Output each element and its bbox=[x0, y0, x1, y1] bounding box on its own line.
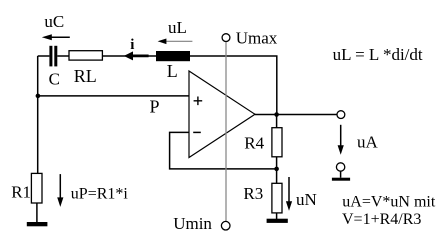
op-amp minus input marker bbox=[193, 131, 201, 133]
wire top-left horizontal to capacitor bbox=[38, 55, 50, 57]
svg-text:uA=V*uN mit: uA=V*uN mit bbox=[342, 193, 436, 210]
svg-text:RL: RL bbox=[74, 66, 97, 86]
resistor R4 bbox=[272, 128, 282, 157]
resistor R1 bbox=[31, 173, 42, 203]
wire node P to op-amp plus input bbox=[38, 95, 189, 97]
wire L to top-right corner and down to output node bbox=[190, 56, 277, 115]
capacitor C plates bbox=[49, 46, 57, 67]
node R4/R3 junction dot bbox=[274, 167, 279, 172]
svg-text:V=1+R4/R3: V=1+R4/R3 bbox=[342, 211, 421, 228]
wire R3 to ground bbox=[276, 213, 278, 219]
wire capacitor to resistor RL bbox=[57, 55, 69, 57]
svg-text:Umax: Umax bbox=[236, 28, 278, 47]
svg-text:L: L bbox=[167, 61, 178, 81]
svg-text:uA: uA bbox=[357, 133, 379, 152]
wire op-amp output to uA terminal bbox=[255, 114, 337, 116]
ground under R1 bbox=[27, 222, 48, 226]
terminal Umax bbox=[222, 34, 230, 42]
wire feedback loop from minus input to R4/R3 node bbox=[170, 132, 277, 169]
arrow uC bbox=[42, 34, 70, 40]
ground under uA terminal bbox=[332, 178, 350, 181]
node P junction dot bbox=[36, 94, 41, 99]
supply wire Umax to Umin through op-amp bbox=[225, 42, 227, 222]
svg-text:R3: R3 bbox=[243, 184, 263, 203]
svg-text:P: P bbox=[150, 97, 160, 117]
op-amp bbox=[189, 71, 255, 158]
terminal uA output bbox=[337, 111, 345, 119]
arrow uN bbox=[286, 177, 292, 211]
svg-text:Umin: Umin bbox=[173, 214, 212, 233]
svg-text:R1: R1 bbox=[11, 182, 31, 201]
svg-text:C: C bbox=[49, 70, 60, 89]
inductor L bbox=[156, 51, 190, 61]
svg-text:uL: uL bbox=[168, 18, 187, 37]
ground under R3 bbox=[267, 219, 288, 223]
resistor RL bbox=[69, 51, 102, 60]
arrow uL bbox=[158, 39, 193, 45]
wire output node to R4 bbox=[276, 115, 278, 129]
terminal Umin bbox=[221, 221, 230, 230]
wire left vertical from capacitor down to R1 bbox=[37, 56, 39, 173]
arrow uP bbox=[57, 174, 63, 207]
wire R4 to R3 node bbox=[276, 157, 278, 184]
svg-text:uN: uN bbox=[296, 190, 317, 209]
node output junction dot bbox=[274, 112, 279, 117]
op-amp plus input marker bbox=[194, 97, 203, 106]
wire RL to inductor L bbox=[102, 55, 156, 57]
svg-text:i: i bbox=[130, 37, 134, 53]
arrow uA bbox=[338, 125, 344, 155]
svg-text:R4: R4 bbox=[244, 134, 264, 153]
svg-text:uC: uC bbox=[44, 12, 64, 31]
resistor R3 bbox=[272, 183, 282, 213]
arrow i (current) bbox=[124, 51, 149, 60]
wire uA terminal stub bbox=[340, 171, 342, 178]
terminal uA lower bbox=[336, 163, 344, 171]
svg-text:uP=R1*i: uP=R1*i bbox=[71, 186, 129, 203]
svg-text:uL = L *di/dt: uL = L *di/dt bbox=[333, 45, 423, 64]
wire R1 to ground bbox=[36, 203, 38, 222]
